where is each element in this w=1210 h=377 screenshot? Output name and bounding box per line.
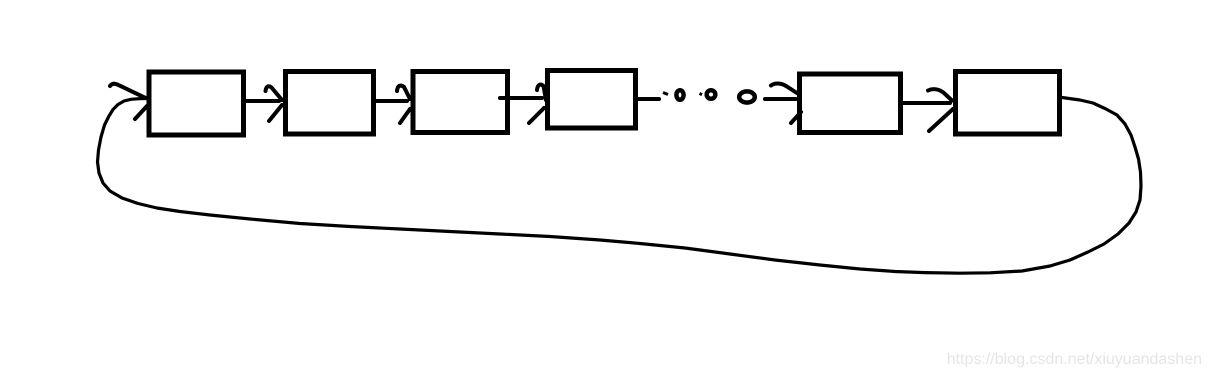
svg-text:https://blog.csdn.net/xiuyuand: https://blog.csdn.net/xiuyuandashen [947,351,1202,368]
